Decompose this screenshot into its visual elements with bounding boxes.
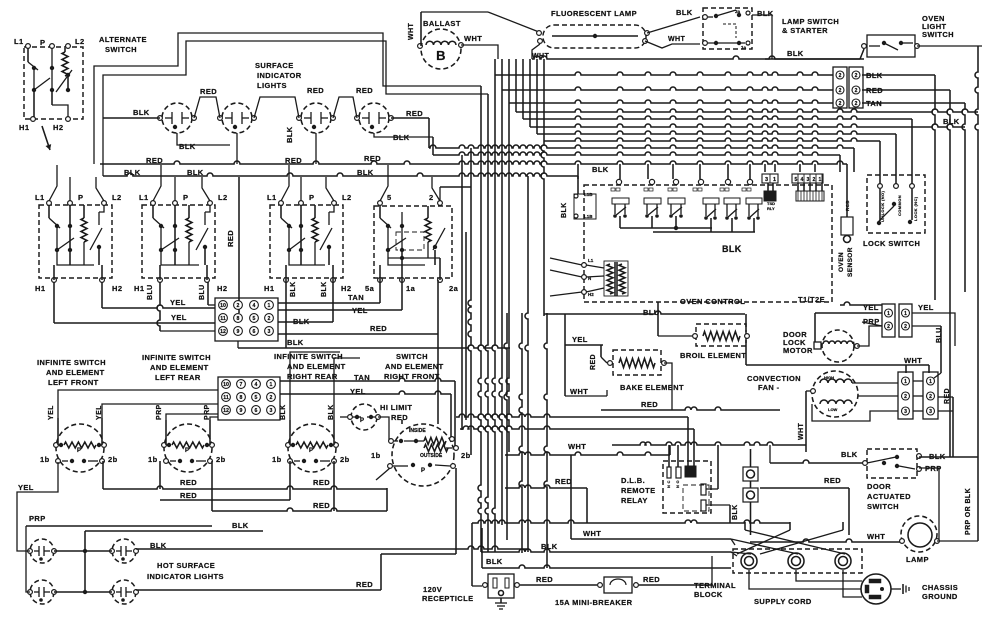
svg-text:4: 4: [253, 303, 256, 309]
svg-text:RIGHT FRONT: RIGHT FRONT: [384, 372, 440, 381]
svg-text:YEL: YEL: [918, 303, 934, 312]
svg-text:WHT: WHT: [867, 532, 885, 541]
svg-text:YEL: YEL: [572, 335, 588, 344]
svg-text:2: 2: [855, 101, 858, 107]
svg-text:3: 3: [268, 329, 271, 335]
svg-text:LEFT FRONT: LEFT FRONT: [48, 378, 99, 387]
svg-text:RED: RED: [590, 354, 597, 370]
svg-text:BLK: BLK: [290, 281, 297, 297]
svg-text:D.L.B.: D.L.B.: [621, 476, 645, 485]
svg-text:BLK: BLK: [841, 450, 858, 459]
svg-text:2: 2: [813, 177, 816, 183]
svg-text:RED: RED: [944, 388, 951, 404]
svg-text:15A MINI-BREAKER: 15A MINI-BREAKER: [555, 598, 633, 607]
svg-text:L2: L2: [75, 37, 85, 46]
svg-text:BLK: BLK: [133, 108, 150, 117]
svg-text:INSIDE: INSIDE: [409, 428, 426, 434]
svg-text:P: P: [183, 193, 188, 202]
svg-text:SWITCH: SWITCH: [922, 30, 954, 39]
svg-text:12: 12: [220, 329, 226, 335]
svg-text:INFINITE SWITCH: INFINITE SWITCH: [142, 353, 211, 362]
svg-text:L1: L1: [14, 37, 24, 46]
svg-text:5: 5: [795, 177, 798, 183]
svg-text:WHT: WHT: [583, 529, 601, 538]
svg-text:RCB: RCB: [845, 200, 850, 211]
svg-text:11: 11: [223, 395, 229, 401]
svg-text:2: 2: [904, 324, 907, 330]
svg-text:AND ELEMENT: AND ELEMENT: [46, 368, 105, 377]
svg-text:1: 1: [819, 177, 822, 183]
svg-text:1: 1: [904, 311, 907, 317]
svg-text:5: 5: [387, 193, 392, 202]
svg-text:BALLAST: BALLAST: [423, 19, 461, 28]
svg-text:BLU: BLU: [936, 327, 943, 343]
svg-text:RLY: RLY: [767, 206, 775, 211]
svg-text:PRP: PRP: [29, 514, 46, 523]
svg-text:BLOCK: BLOCK: [694, 590, 723, 599]
svg-text:8: 8: [240, 395, 243, 401]
svg-text:WHT: WHT: [668, 36, 685, 43]
svg-text:AND ELEMENT: AND ELEMENT: [385, 362, 444, 371]
svg-text:RED: RED: [370, 324, 387, 333]
svg-text:3: 3: [765, 177, 768, 183]
svg-text:MOTOR: MOTOR: [783, 346, 813, 355]
svg-text:BLK: BLK: [486, 557, 503, 566]
svg-text:AND ELEMENT: AND ELEMENT: [287, 362, 346, 371]
svg-text:3: 3: [904, 409, 907, 415]
svg-text:INDICATOR: INDICATOR: [257, 71, 302, 80]
svg-text:P: P: [78, 193, 83, 202]
svg-text:1b: 1b: [371, 451, 381, 460]
svg-text:GROUND: GROUND: [922, 592, 958, 601]
svg-text:RED: RED: [226, 230, 235, 247]
svg-text:1b: 1b: [40, 455, 50, 464]
svg-text:SWITCH: SWITCH: [867, 502, 899, 511]
svg-text:2: 2: [839, 101, 842, 107]
svg-text:2: 2: [429, 193, 434, 202]
svg-text:WHT: WHT: [568, 442, 586, 451]
svg-text:RED: RED: [643, 575, 660, 584]
svg-text:RED: RED: [391, 413, 408, 422]
svg-text:3: 3: [807, 177, 810, 183]
svg-text:12: 12: [223, 408, 229, 414]
svg-text:INFINITE SWITCH: INFINITE SWITCH: [274, 352, 343, 361]
svg-text:2b: 2b: [216, 455, 226, 464]
svg-text:7: 7: [240, 382, 243, 388]
svg-text:TERMINAL: TERMINAL: [694, 581, 736, 590]
svg-text:YEL: YEL: [18, 483, 34, 492]
svg-text:BLK: BLK: [722, 244, 742, 254]
svg-text:1: 1: [270, 382, 273, 388]
svg-text:HOT SURFACE: HOT SURFACE: [157, 561, 215, 570]
svg-text:2: 2: [237, 303, 240, 309]
svg-text:RED: RED: [313, 501, 330, 510]
svg-text:11: 11: [220, 316, 226, 322]
svg-text:2: 2: [929, 394, 932, 400]
svg-text:BLU: BLU: [643, 308, 660, 317]
svg-text:RED: RED: [307, 86, 324, 95]
svg-text:2a: 2a: [735, 9, 741, 14]
svg-text:FLUORESCENT LAMP: FLUORESCENT LAMP: [551, 9, 637, 18]
svg-text:TAN: TAN: [348, 293, 364, 302]
svg-text:1b: 1b: [148, 455, 158, 464]
svg-text:LOCK (NC): LOCK (NC): [913, 196, 918, 221]
svg-text:L2: L2: [218, 193, 228, 202]
svg-text:BLK: BLK: [592, 165, 609, 174]
svg-text:LAMP: LAMP: [906, 555, 929, 564]
svg-text:10: 10: [223, 382, 229, 388]
svg-text:T1/T2E: T1/T2E: [798, 295, 825, 304]
svg-text:1: 1: [904, 379, 907, 385]
svg-text:BLK: BLK: [561, 202, 568, 218]
svg-text:3: 3: [270, 408, 273, 414]
svg-text:L2: L2: [112, 193, 122, 202]
svg-text:BLU: BLU: [199, 284, 206, 300]
svg-text:CONVECTION: CONVECTION: [747, 374, 801, 383]
svg-text:L1B: L1B: [584, 192, 593, 197]
svg-text:2: 2: [904, 394, 907, 400]
svg-text:L1: L1: [139, 193, 149, 202]
svg-text:P: P: [185, 448, 189, 454]
svg-text:H1: H1: [19, 123, 29, 132]
svg-text:OUTSIDE: OUTSIDE: [420, 453, 443, 459]
svg-text:9: 9: [237, 329, 240, 335]
svg-text:L1B: L1B: [584, 214, 593, 219]
svg-text:RED: RED: [313, 478, 330, 487]
svg-text:HI LIMIT: HI LIMIT: [380, 403, 412, 412]
svg-text:5: 5: [253, 316, 256, 322]
svg-text:BLK: BLK: [732, 504, 739, 520]
svg-text:RED: RED: [641, 400, 658, 409]
svg-text:4: 4: [255, 382, 258, 388]
svg-text:RED: RED: [406, 109, 423, 118]
svg-text:SWITCH: SWITCH: [105, 45, 137, 54]
svg-text:N C: N C: [667, 480, 671, 488]
svg-text:H1: H1: [134, 284, 144, 293]
svg-text:2: 2: [839, 73, 842, 79]
svg-text:1a: 1a: [406, 284, 416, 293]
svg-text:YEL: YEL: [171, 313, 187, 322]
svg-text:P: P: [309, 448, 313, 454]
svg-text:LAMP SWITCH: LAMP SWITCH: [782, 17, 839, 26]
svg-text:WHT: WHT: [570, 387, 588, 396]
svg-text:9: 9: [240, 408, 243, 414]
svg-text:REMOTE: REMOTE: [621, 486, 655, 495]
svg-text:2: 2: [855, 88, 858, 94]
svg-text:LOCK SWITCH: LOCK SWITCH: [863, 239, 920, 248]
svg-text:P: P: [77, 448, 81, 454]
svg-text:WHT: WHT: [904, 356, 922, 365]
svg-text:L2: L2: [342, 193, 352, 202]
svg-text:CHASSIS: CHASSIS: [922, 583, 958, 592]
svg-text:YEL: YEL: [48, 405, 55, 420]
svg-text:BROIL ELEMENT: BROIL ELEMENT: [680, 351, 746, 360]
svg-text:H2: H2: [112, 284, 122, 293]
svg-text:BLK: BLK: [232, 521, 249, 530]
svg-text:BLK: BLK: [321, 281, 328, 297]
svg-text:H2: H2: [53, 123, 63, 132]
svg-text:2: 2: [839, 88, 842, 94]
svg-text:8: 8: [237, 316, 240, 322]
svg-text:2: 2: [855, 73, 858, 79]
svg-text:BLK: BLK: [676, 8, 693, 17]
svg-text:5: 5: [255, 395, 258, 401]
svg-text:1: 1: [773, 177, 776, 183]
svg-text:RED: RED: [555, 477, 572, 486]
svg-text:L1: L1: [267, 193, 277, 202]
svg-text:1a: 1a: [741, 45, 747, 50]
svg-text:PRP OR BLK: PRP OR BLK: [965, 488, 972, 535]
svg-text:LIGHTS: LIGHTS: [257, 81, 287, 90]
svg-text:2b: 2b: [108, 455, 118, 464]
svg-text:RELAY: RELAY: [621, 496, 648, 505]
svg-text:BLU: BLU: [147, 284, 154, 300]
svg-text:RED: RED: [356, 86, 373, 95]
svg-text:BLK: BLK: [757, 9, 774, 18]
svg-text:WHT: WHT: [408, 23, 415, 40]
svg-text:H1: H1: [264, 284, 274, 293]
svg-text:RED: RED: [356, 580, 373, 589]
svg-text:RED: RED: [536, 575, 553, 584]
svg-text:COMMON: COMMON: [897, 195, 902, 216]
svg-text:BLK: BLK: [285, 126, 294, 143]
svg-text:2: 2: [268, 316, 271, 322]
svg-text:H1: H1: [35, 284, 45, 293]
svg-text:P: P: [421, 468, 425, 474]
svg-text:H2: H2: [341, 284, 351, 293]
svg-text:BLK: BLK: [179, 142, 196, 151]
svg-text:SUPPLY CORD: SUPPLY CORD: [754, 597, 812, 606]
svg-text:1b: 1b: [272, 455, 282, 464]
svg-text:WHT: WHT: [798, 423, 805, 440]
svg-text:RED: RED: [824, 476, 841, 485]
svg-text:1: 1: [929, 379, 932, 385]
svg-text:P: P: [309, 193, 314, 202]
svg-text:OVEN: OVEN: [838, 252, 845, 272]
svg-text:RED: RED: [180, 491, 197, 500]
svg-text:YEL: YEL: [170, 298, 186, 307]
svg-text:6: 6: [255, 408, 258, 414]
svg-text:ACTUATED: ACTUATED: [867, 492, 911, 501]
svg-text:SURFACE: SURFACE: [255, 61, 294, 70]
svg-text:L1: L1: [35, 193, 45, 202]
svg-text:BLK: BLK: [287, 338, 304, 347]
svg-text:WHT: WHT: [464, 34, 482, 43]
svg-text:RIGHT REAR: RIGHT REAR: [287, 372, 338, 381]
svg-text:LOW: LOW: [828, 407, 838, 412]
svg-text:B: B: [436, 48, 446, 63]
svg-text:BLK: BLK: [280, 404, 287, 420]
svg-text:1: 1: [268, 303, 271, 309]
svg-text:2b: 2b: [461, 451, 471, 460]
svg-text:FAN -: FAN -: [758, 383, 780, 392]
svg-text:2: 2: [270, 395, 273, 401]
svg-text:RED: RED: [180, 478, 197, 487]
svg-text:1: 1: [887, 311, 890, 317]
svg-text:2a: 2a: [449, 284, 459, 293]
svg-text:5a: 5a: [365, 284, 375, 293]
svg-text:RED: RED: [200, 87, 217, 96]
svg-text:ALTERNATE: ALTERNATE: [99, 35, 147, 44]
svg-text:INFINITE SWITCH: INFINITE SWITCH: [37, 358, 106, 367]
svg-text:L1: L1: [588, 258, 594, 263]
svg-text:OVEN CONTROL: OVEN CONTROL: [680, 297, 745, 306]
svg-text:RECEPTICLE: RECEPTICLE: [422, 594, 474, 603]
svg-text:10: 10: [220, 303, 226, 309]
svg-text:BLK: BLK: [866, 71, 883, 80]
svg-text:4: 4: [801, 177, 804, 183]
svg-text:120V: 120V: [423, 585, 442, 594]
svg-text:N O: N O: [676, 480, 680, 488]
svg-text:H2: H2: [217, 284, 227, 293]
svg-text:INDICATOR LIGHTS: INDICATOR LIGHTS: [147, 572, 224, 581]
svg-text:AND ELEMENT: AND ELEMENT: [150, 363, 209, 372]
svg-text:P: P: [40, 38, 45, 47]
svg-text:SENSOR: SENSOR: [847, 247, 854, 277]
svg-text:H2: H2: [588, 292, 594, 297]
svg-text:SWITCH: SWITCH: [396, 352, 428, 361]
svg-text:LEFT REAR: LEFT REAR: [155, 373, 201, 382]
svg-text:3: 3: [929, 409, 932, 415]
svg-text:BLK: BLK: [787, 49, 804, 58]
svg-text:PRP: PRP: [156, 404, 163, 420]
svg-text:P: P: [360, 418, 364, 424]
svg-text:2b: 2b: [340, 455, 350, 464]
svg-text:TAN: TAN: [866, 99, 882, 108]
svg-text:6: 6: [253, 329, 256, 335]
svg-text:DOOR: DOOR: [867, 482, 891, 491]
svg-text:RED: RED: [866, 86, 883, 95]
svg-text:2: 2: [887, 324, 890, 330]
svg-text:BAKE ELEMENT: BAKE ELEMENT: [620, 383, 684, 392]
svg-text:& STARTER: & STARTER: [782, 26, 828, 35]
